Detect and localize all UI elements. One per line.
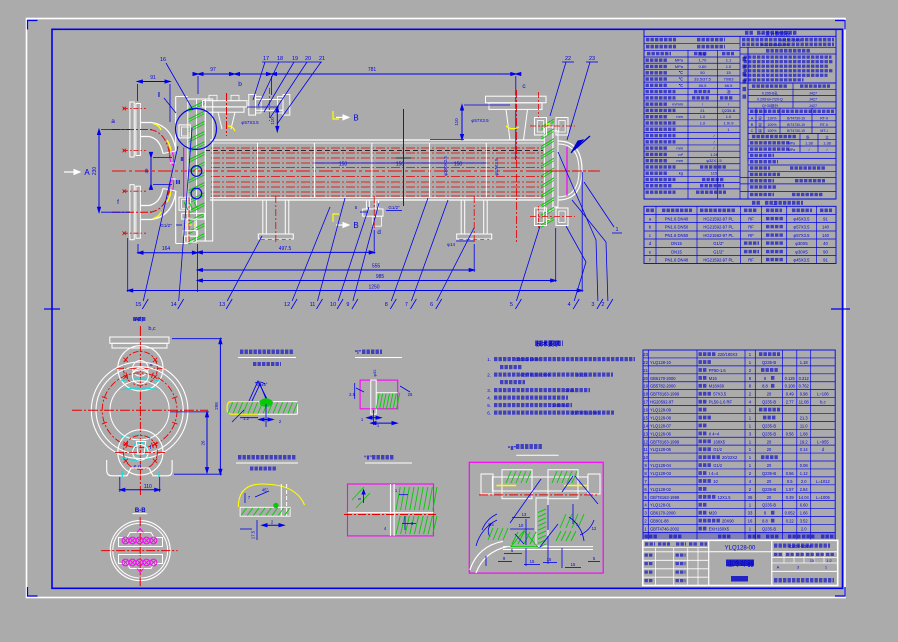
svg-text:15: 15 [726,70,731,75]
svg-text:0.108: 0.108 [785,384,796,389]
svg-text:Q+30部分: Q+30部分 [762,103,778,108]
svg-text:YLQ128-09: YLQ128-09 [650,408,672,413]
svg-text:C: C [751,129,754,133]
svg-text:17.5: 17.5 [250,530,255,539]
svg-text:97: 97 [210,67,216,73]
svg-text:20: 20 [767,447,772,452]
svg-text:L=1005: L=1005 [816,495,830,500]
svg-text:B-B: B-B [135,508,146,514]
svg-text:90: 90 [823,250,828,255]
svg-text:115: 115 [711,171,718,176]
svg-text:3.85mm.: 3.85mm. [552,403,568,408]
svg-text:MPa: MPa [788,148,795,152]
svg-text:91: 91 [823,258,828,263]
svg-text:I: I [158,92,160,99]
svg-text:8.8: 8.8 [762,384,768,389]
svg-text:22: 22 [565,56,571,62]
svg-text:A: A [777,565,780,570]
svg-text:φ57X3.5: φ57X3.5 [241,120,259,125]
svg-text:PL50-1.6 RF: PL50-1.6 RF [709,400,733,405]
svg-text:G1/2″: G1/2″ [713,250,724,255]
svg-text:YLQ128-08: YLQ128-08 [650,415,672,420]
svg-text:B/T4730-19: B/T4730-19 [787,129,805,133]
svg-text:20: 20 [643,376,648,381]
svg-text:m²: m² [678,152,683,157]
svg-text:III: III [176,180,181,186]
svg-text:φ14: φ14 [447,242,455,247]
svg-text:Q235-B: Q235-B [762,503,776,508]
svg-text:DN15: DN15 [671,250,682,255]
svg-text:14: 14 [643,423,648,428]
svg-text:14.04: 14.04 [799,495,810,500]
svg-text:0.56: 0.56 [786,471,795,476]
svg-text:0.49: 0.49 [786,392,795,397]
svg-text:0.5: 0.5 [787,479,793,484]
svg-text:21: 21 [643,368,648,373]
svg-text:B/T4730-19: B/T4730-19 [787,117,805,121]
svg-text:0.98: 0.98 [800,392,809,397]
svg-text:10: 10 [519,523,524,528]
svg-text:0.56: 0.56 [786,431,795,436]
svg-text:140: 140 [822,233,830,238]
svg-text:HG21545A-1990: HG21545A-1990 [761,43,790,47]
svg-text:10: 10 [713,479,718,484]
svg-text:5: 5 [510,302,513,308]
svg-text:Q235-B: Q235-B [762,423,776,428]
svg-text:I 4=4: I 4=4 [709,471,719,476]
svg-text:11: 11 [310,302,316,308]
svg-text:164: 164 [162,246,171,252]
svg-text:YLQ128-10: YLQ128-10 [650,360,672,365]
svg-text:YLQ128-05: YLQ128-05 [650,447,672,452]
svg-text:110: 110 [144,484,152,490]
svg-text:15: 15 [810,558,815,563]
svg-text:12X1.5: 12X1.5 [718,495,732,500]
svg-text:1.18: 1.18 [800,360,809,365]
svg-text:1.38: 1.38 [805,142,812,146]
svg-text:9: 9 [346,302,349,308]
svg-text:555: 555 [372,264,381,270]
svg-text:14: 14 [171,302,177,308]
svg-text:HG21592-97 PL: HG21592-97 PL [703,217,734,222]
svg-text:91: 91 [150,75,156,81]
svg-text:Q235-B: Q235-B [762,400,776,405]
svg-text:22: 22 [643,360,648,365]
svg-text:2: 2 [601,302,604,308]
svg-text:1mm.: 1mm. [565,388,575,393]
svg-text:MT-I: MT-I [820,129,827,133]
svg-text:20: 20 [767,439,772,444]
svg-text:18: 18 [277,56,283,62]
svg-text:15: 15 [571,562,576,567]
svg-text:GB151-1999: GB151-1999 [779,39,801,43]
svg-text:mm: mm [676,114,683,119]
svg-text:GB/T8163-1999: GB/T8163-1999 [520,373,550,378]
svg-text:1.28: 1.28 [710,152,719,157]
svg-text:φ30X5: φ30X5 [795,250,808,255]
svg-text:23: 23 [589,56,595,62]
svg-text:1.1: 1.1 [726,58,732,63]
svg-text:3.: 3. [487,388,491,393]
svg-text:18: 18 [643,392,648,397]
svg-text:L=1012: L=1012 [816,479,830,484]
svg-text:B: B [353,113,358,122]
svg-text:110: 110 [454,118,459,126]
svg-text:容: 容 [758,122,762,127]
svg-text:M16: M16 [709,376,718,381]
svg-text:20X90: 20X90 [722,519,735,524]
svg-text:55.5: 55.5 [699,83,708,88]
svg-text:φ32X1.5: φ32X1.5 [706,158,722,163]
svg-text:2.0: 2.0 [801,479,807,484]
svg-text:GB6170-2000: GB6170-2000 [650,376,676,381]
svg-text:4: 4 [568,302,571,308]
svg-text:GB151-1999: GB151-1999 [515,357,539,362]
svg-text:“II”: “II” [508,446,517,452]
svg-text:1.0: 1.0 [726,114,732,119]
svg-text:RF: RF [748,233,754,238]
svg-text:HG21592-97 PL: HG21592-97 PL [703,225,734,230]
svg-text:26: 26 [201,440,206,446]
svg-text:1.66: 1.66 [800,511,809,516]
svg-text:φ57X3.5: φ57X3.5 [794,233,811,238]
svg-text:MPa: MPa [675,64,684,69]
svg-text:容: 容 [758,116,762,121]
svg-text:J427: J427 [809,98,817,102]
svg-text:11.0: 11.0 [800,423,808,428]
svg-text:Q235-B: Q235-B [762,431,776,436]
svg-text:A: A [84,168,90,177]
svg-text:G1/2″: G1/2″ [160,223,172,228]
svg-text:PF50-1.6: PF50-1.6 [709,368,727,373]
svg-text:168X5: 168X5 [713,439,726,444]
svg-text:M20: M20 [709,511,718,516]
svg-text:kg: kg [679,171,683,176]
svg-text:781: 781 [368,67,377,73]
svg-text:13: 13 [643,431,648,436]
svg-text:Q235-B: Q235-B [762,487,776,492]
svg-text:19: 19 [292,56,298,62]
svg-text:298: 298 [214,402,219,410]
svg-text:11.08: 11.08 [799,400,810,405]
svg-text:497.5: 497.5 [279,246,292,252]
svg-text:7: 7 [405,302,408,308]
svg-text:G1/2: G1/2 [713,463,723,468]
svg-text:23: 23 [643,352,648,357]
svg-text:0.60: 0.60 [699,64,708,69]
svg-text:M16X60: M16X60 [709,384,725,389]
svg-text:100%: 100% [767,123,777,127]
svg-text:PN1.6 DN40: PN1.6 DN40 [665,258,689,263]
svg-text:0.295-B孔: 0.295-B孔 [762,90,779,95]
svg-text:mm: mm [676,146,683,151]
svg-text:0.08: 0.08 [800,463,809,468]
svg-text:1.: 1. [487,357,491,362]
svg-text:10: 10 [643,455,648,460]
svg-text:13: 13 [219,302,225,308]
svg-text:L=955: L=955 [817,439,829,444]
svg-text:RF: RF [748,225,754,230]
svg-text:110%: 110% [768,117,778,121]
svg-text:Q235-B: Q235-B [762,471,776,476]
svg-text:15: 15 [547,557,552,562]
svg-text:JB/T4711-2003.: JB/T4711-2003. [571,411,601,416]
svg-text:a: a [111,118,115,125]
svg-text:6.: 6. [487,411,491,416]
svg-text:J427: J427 [809,104,817,108]
svg-text:12: 12 [592,526,597,531]
svg-text:91: 91 [823,217,828,222]
svg-text:±0.20,: ±0.20, [576,373,588,378]
svg-text:YLQ128-07: YLQ128-07 [650,423,672,428]
svg-text:GB/T4746-2002: GB/T4746-2002 [650,526,680,531]
svg-text:21.3: 21.3 [800,415,809,420]
svg-text:3: 3 [591,302,594,308]
svg-text:100%: 100% [767,129,777,133]
svg-text:4.: 4. [487,396,491,401]
svg-text:GB5782-2000: GB5782-2000 [650,384,676,389]
svg-text:2.0: 2.0 [801,526,807,531]
svg-text:℃: ℃ [679,70,684,75]
svg-text:Q235-B: Q235-B [722,108,736,113]
svg-text:Q235-B: Q235-B [762,526,776,531]
svg-text:10: 10 [330,302,336,308]
svg-text:GB901-88: GB901-88 [650,519,669,524]
svg-text:B: B [353,221,358,230]
svg-text:立: 立 [825,134,829,139]
svg-text:150: 150 [454,162,463,168]
svg-text:20: 20 [767,392,772,397]
svg-text:57X3.5: 57X3.5 [713,392,727,397]
svg-text:HG20592-97: HG20592-97 [650,400,674,405]
svg-text:11: 11 [643,447,648,452]
svg-text:RF: RF [748,217,754,222]
svg-text:15: 15 [643,415,648,420]
svg-text:0.22: 0.22 [786,519,795,524]
svg-text:5.: 5. [487,403,491,408]
svg-text:φ57X3.5: φ57X3.5 [794,225,811,230]
svg-text:II 4=4: II 4=4 [709,431,720,436]
svg-text:φ200X2.5: φ200X2.5 [443,156,448,176]
svg-text:110: 110 [270,117,275,125]
svg-text:m/min: m/min [672,102,683,107]
svg-text:HG21592-97 PL: HG21592-97 PL [703,258,734,263]
svg-text:MPa: MPa [788,142,795,146]
svg-text:19.2: 19.2 [800,439,809,444]
svg-text:φ57X3.5: φ57X3.5 [494,158,499,176]
svg-text:GB/T8163-1999: GB/T8163-1999 [650,392,680,397]
svg-text:mm: mm [676,158,683,163]
svg-text:1.0: 1.0 [700,114,706,119]
svg-text:12: 12 [643,439,648,444]
svg-text:17: 17 [643,400,648,405]
svg-text:B/T4730-19: B/T4730-19 [787,123,805,127]
svg-text:0.212: 0.212 [799,376,810,381]
svg-text:36: 36 [748,495,753,500]
svg-text:PN1.6 DN50: PN1.6 DN50 [665,233,689,238]
svg-text:3.52: 3.52 [800,519,809,524]
svg-text:25: 25 [408,392,413,397]
svg-text:G1/2″: G1/2″ [713,241,724,246]
svg-text:0.762: 0.762 [799,384,810,389]
svg-text:G1/2: G1/2 [713,447,723,452]
svg-text:20/22X2: 20/22X2 [722,455,738,460]
svg-text:1.57: 1.57 [786,487,795,492]
svg-text:1: 1 [615,227,618,233]
svg-text:1250: 1250 [368,285,379,291]
svg-text:油: 油 [727,88,731,94]
svg-text:0.052: 0.052 [785,511,796,516]
svg-text:卧: 卧 [806,134,810,139]
svg-text:33.5/37.5: 33.5/37.5 [694,77,711,82]
svg-text:C204-5349: C204-5349 [789,544,812,549]
svg-text:b,c: b,c [820,400,825,405]
svg-text:GB/T8163-1999: GB/T8163-1999 [650,439,680,444]
svg-text:20: 20 [767,495,772,500]
svg-text:RF: RF [748,258,754,263]
svg-text:1.0/.9: 1.0/.9 [723,120,734,125]
svg-text:HG21592-97 PL: HG21592-97 PL [703,233,734,238]
svg-text:YLQ128-04: YLQ128-04 [650,463,672,468]
svg-text:b: b [238,81,242,88]
svg-text:φ45X3.5: φ45X3.5 [794,217,811,222]
svg-text:16: 16 [643,408,648,413]
svg-text:f: f [117,199,119,206]
svg-text:230: 230 [92,167,98,176]
svg-text:1.68: 1.68 [800,431,809,436]
svg-text:φ30X5: φ30X5 [795,241,808,246]
svg-text:A: A [751,117,754,121]
svg-text:0.14: 0.14 [800,447,809,452]
svg-text:140: 140 [822,225,830,230]
svg-text:1.2: 1.2 [243,416,249,421]
svg-text:1.12: 1.12 [800,471,809,476]
svg-text:1:2: 1:2 [826,558,832,563]
svg-text:21: 21 [700,108,705,113]
svg-text:40: 40 [823,241,828,246]
svg-text:20: 20 [767,463,772,468]
svg-text:GB6170-2000: GB6170-2000 [650,511,676,516]
svg-text:17: 17 [263,56,269,62]
svg-text:1.0: 1.0 [726,64,732,69]
svg-text:YLQ128-03: YLQ128-03 [650,471,672,476]
svg-text:21: 21 [319,56,325,62]
svg-text:d: d [377,229,381,236]
svg-text:G1/2″: G1/2″ [388,205,400,210]
svg-text:YLQ128-01: YLQ128-01 [650,503,672,508]
svg-text:13: 13 [522,512,527,517]
svg-text:“I”: “I” [355,350,362,356]
svg-text:2.5: 2.5 [349,392,355,397]
svg-text:20: 20 [767,479,772,484]
svg-text:RT-II: RT-II [820,117,828,121]
svg-text:PN1.6 DN50: PN1.6 DN50 [665,225,689,230]
svg-text:220/180X3: 220/180X3 [718,352,739,357]
svg-text:70/63: 70/63 [723,77,734,82]
svg-text:6: 6 [430,302,433,308]
svg-text:15: 15 [135,302,141,308]
svg-text:EKH160X5: EKH160X5 [709,526,730,531]
svg-text:19: 19 [643,384,648,389]
svg-text:985: 985 [376,274,385,280]
svg-text:1.0: 1.0 [700,120,706,125]
svg-text:2.84: 2.84 [800,487,809,492]
svg-text:℃: ℃ [679,83,684,88]
svg-text:YLQ128-06: YLQ128-06 [650,431,672,436]
svg-text:16: 16 [160,57,166,63]
svg-text:接: 接 [758,128,762,133]
svg-text:50: 50 [700,70,705,75]
svg-text:c: c [649,233,651,238]
svg-text:MPa: MPa [675,58,684,63]
svg-text:e,d: e,d [133,464,141,470]
svg-text:RT-II: RT-II [820,123,828,127]
svg-text:“II”: “II” [364,456,372,462]
svg-text:℃: ℃ [679,77,684,82]
svg-text:Q235-B: Q235-B [762,360,776,365]
svg-text:12: 12 [284,302,290,308]
svg-text:YLQ128-00: YLQ128-00 [725,546,756,552]
svg-text:0.295-B+7/20-Q: 0.295-B+7/20-Q [757,98,783,102]
svg-text:6.60: 6.60 [800,503,809,508]
svg-text:16: 16 [748,519,753,524]
svg-text:φ57X3.5: φ57X3.5 [471,118,489,123]
svg-text:1.38: 1.38 [823,142,830,146]
svg-text:B: B [751,123,754,127]
svg-text:DN15: DN15 [671,241,682,246]
svg-text:L=106: L=106 [817,392,829,397]
svg-text:0.39: 0.39 [786,495,795,500]
svg-text:J427: J427 [809,91,817,95]
svg-text:φ45X3.5: φ45X3.5 [794,258,811,263]
svg-text:II: II [180,157,184,163]
svg-text:GB/T8163-1999: GB/T8163-1999 [650,495,680,500]
svg-text:2.77: 2.77 [786,400,795,405]
svg-text:49: 49 [144,168,149,174]
svg-text:YLQ128-02: YLQ128-02 [650,487,672,492]
svg-text:1.70: 1.70 [699,58,708,63]
svg-text:b,c: b,c [148,326,156,332]
svg-text:8: 8 [385,302,388,308]
svg-text:φ32: φ32 [372,369,377,377]
svg-text:2.: 2. [487,373,491,378]
svg-text:15: 15 [530,559,535,564]
svg-text:66.5: 66.5 [725,83,734,88]
svg-text:0.125: 0.125 [785,376,796,381]
svg-text:20: 20 [305,56,311,62]
svg-text:8.8: 8.8 [762,519,768,524]
svg-text:33: 33 [748,511,753,516]
svg-text:PN1.6 DN40: PN1.6 DN40 [665,217,689,222]
svg-text:150: 150 [339,162,348,168]
